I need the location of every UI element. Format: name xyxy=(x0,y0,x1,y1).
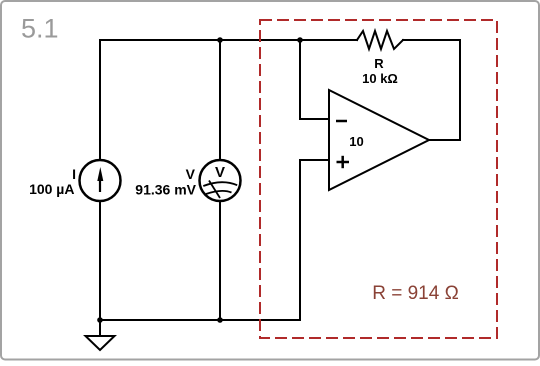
svg-text:91.36 mV: 91.36 mV xyxy=(135,182,196,198)
svg-text:100 µA: 100 µA xyxy=(29,181,74,197)
svg-text:V: V xyxy=(215,164,225,181)
svg-text:R: R xyxy=(374,56,384,71)
svg-text:10: 10 xyxy=(349,134,363,149)
svg-text:5.1: 5.1 xyxy=(21,14,59,44)
svg-text:I: I xyxy=(72,166,76,182)
svg-text:V: V xyxy=(186,166,196,182)
svg-text:R = 914 Ω: R = 914 Ω xyxy=(372,283,459,304)
svg-text:10 kΩ: 10 kΩ xyxy=(362,71,398,86)
